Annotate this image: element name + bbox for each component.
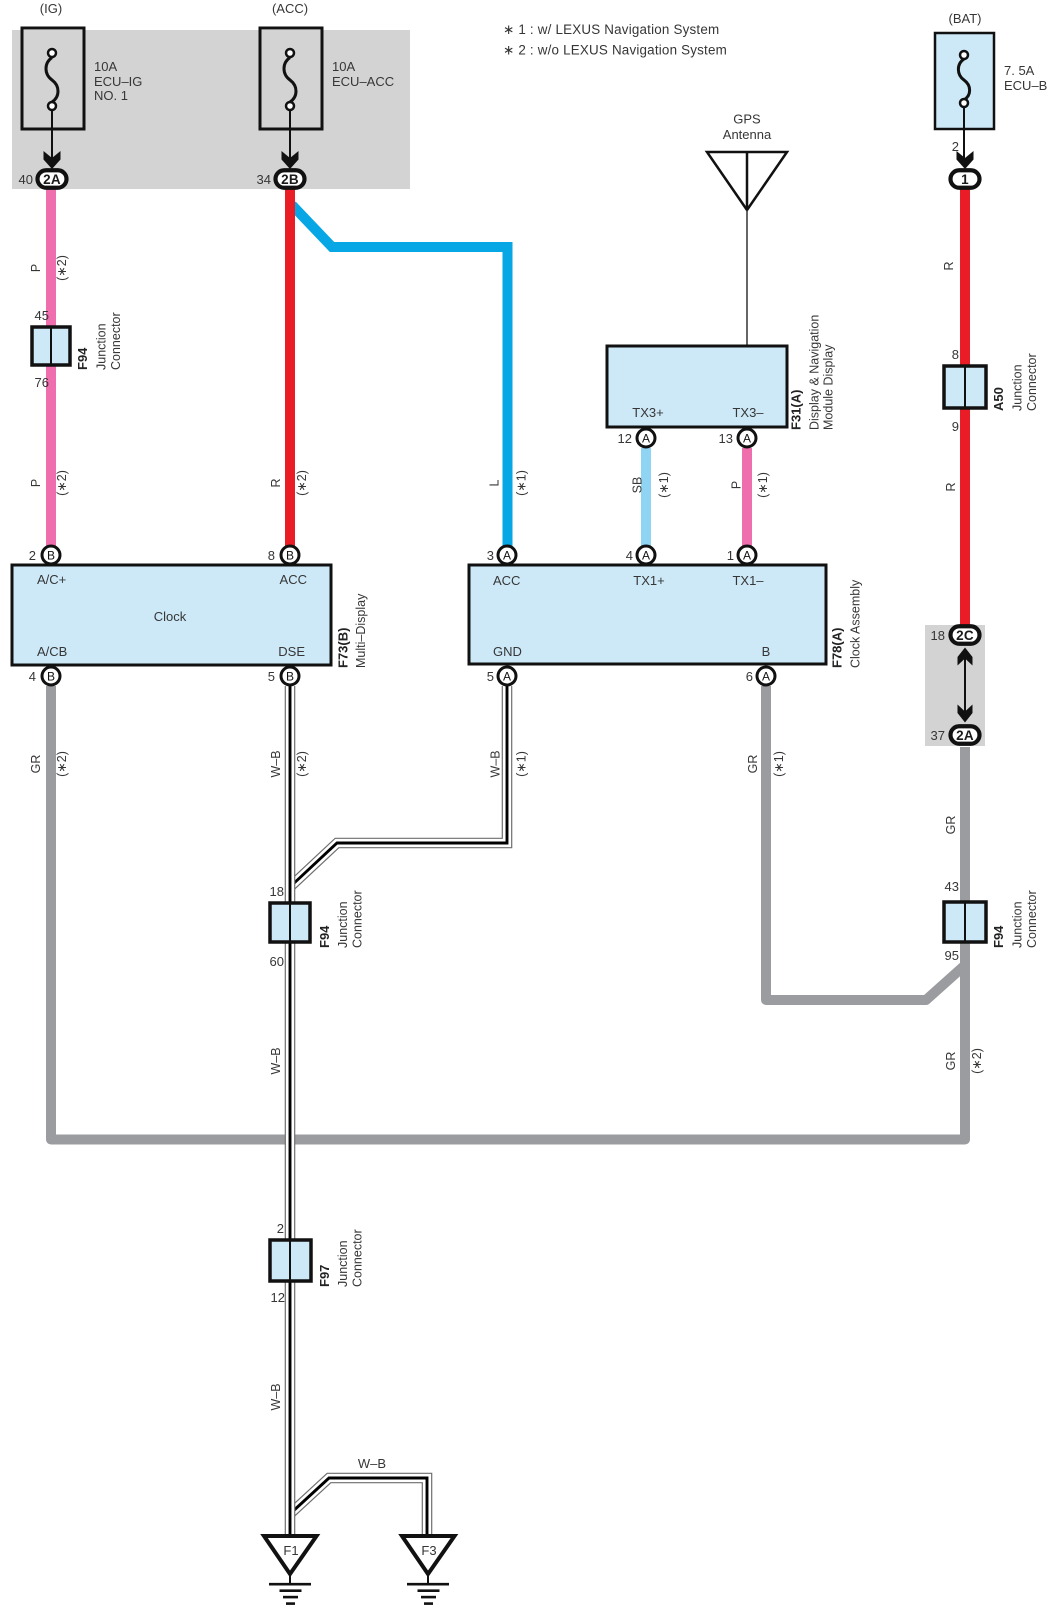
connector oval 2B — [276, 170, 305, 188]
wire label GR (*2) right lower — [944, 1048, 984, 1074]
svg-text:10A: 10A — [332, 59, 355, 74]
svg-text:F31(A): F31(A) — [789, 390, 804, 430]
svg-text:R: R — [269, 478, 283, 487]
svg-text:F3: F3 — [421, 1543, 436, 1558]
svg-text:Connector: Connector — [351, 1229, 365, 1287]
svg-text:45: 45 — [35, 308, 49, 323]
svg-text:F94: F94 — [991, 925, 1006, 948]
pin 5 B — [281, 667, 299, 685]
svg-text:ECU–IG: ECU–IG — [94, 74, 142, 89]
svg-text:F94: F94 — [75, 347, 90, 370]
wire label P (*2) lower — [29, 470, 69, 496]
wire label P (*1) — [730, 472, 771, 498]
svg-text:2: 2 — [29, 548, 36, 563]
svg-text:TX3+: TX3+ — [632, 405, 663, 420]
svg-text:W–B: W–B — [489, 750, 503, 777]
wire W-B (*1) from GND joining DSE line — [291, 686, 507, 886]
svg-text:Connector: Connector — [1025, 353, 1039, 411]
svg-text:B: B — [286, 549, 294, 563]
wire label W-B (*2) — [269, 750, 309, 777]
power source background box — [12, 30, 410, 189]
double arrow between 2C and 2A — [958, 648, 973, 723]
svg-text:A: A — [743, 549, 751, 563]
connector oval 2C with 18 — [931, 626, 980, 644]
svg-text:(∗2): (∗2) — [55, 255, 69, 281]
svg-text:(∗2): (∗2) — [970, 1048, 984, 1074]
wire P (*2) from 2A to clock pin 2 — [46, 189, 56, 549]
svg-text:43: 43 — [945, 879, 959, 894]
svg-text:(∗2): (∗2) — [55, 751, 69, 777]
wire label L (*1) — [488, 470, 529, 496]
svg-text:18: 18 — [270, 884, 284, 899]
connector pass-through background box (2C/2A) — [925, 625, 985, 746]
svg-text:60: 60 — [270, 954, 284, 969]
ground F1 — [264, 1536, 317, 1604]
svg-text:F97: F97 — [317, 1265, 332, 1287]
svg-text:(∗1): (∗1) — [772, 751, 786, 777]
junction connector F94 (45/76) — [32, 308, 123, 390]
svg-text:F78(A): F78(A) — [830, 628, 845, 668]
svg-text:ECU–ACC: ECU–ACC — [332, 74, 394, 89]
svg-text:13: 13 — [719, 431, 733, 446]
svg-text:F1: F1 — [283, 1543, 298, 1558]
svg-text:(∗2): (∗2) — [295, 470, 309, 496]
svg-text:Antenna: Antenna — [723, 127, 772, 142]
svg-text:L: L — [488, 479, 502, 486]
svg-text:1: 1 — [961, 172, 969, 187]
junction connector F97 (2/12) — [270, 1221, 365, 1305]
svg-text:Junction: Junction — [336, 901, 350, 948]
svg-text:A50: A50 — [991, 387, 1006, 411]
svg-text:6: 6 — [746, 669, 753, 684]
svg-text:(BAT): (BAT) — [949, 11, 982, 26]
svg-text:TX1–: TX1– — [732, 573, 764, 588]
svg-text:(∗2): (∗2) — [295, 751, 309, 777]
wire GR (*2) left A/CB down, across, up to 2A right column — [51, 686, 965, 1140]
junction connector F94 (18/60) — [270, 884, 365, 969]
svg-text:40: 40 — [19, 172, 33, 187]
svg-text:Multi–Display: Multi–Display — [354, 593, 368, 668]
pin 1 A — [738, 546, 756, 564]
arrow to connector 1 — [963, 107, 965, 160]
wire label R (*2) — [269, 470, 309, 496]
svg-text:GR: GR — [944, 816, 958, 835]
pin 13 A — [738, 429, 756, 447]
svg-text:(∗2): (∗2) — [55, 470, 69, 496]
svg-text:(IG): (IG) — [40, 1, 62, 16]
svg-text:P: P — [29, 264, 43, 272]
svg-text:GR: GR — [746, 755, 760, 774]
svg-text:P: P — [29, 479, 43, 487]
wire R battery column — [960, 189, 970, 626]
svg-text:37: 37 — [931, 728, 945, 743]
junction connector A50 (8/9) — [944, 347, 1039, 434]
svg-text:A/CB: A/CB — [37, 644, 67, 659]
connector oval 2A right with 37 — [931, 726, 980, 744]
pin 4 B — [42, 667, 60, 685]
svg-text:Junction: Junction — [1011, 364, 1025, 411]
svg-text:A: A — [743, 432, 751, 446]
svg-text:7. 5A: 7. 5A — [1004, 63, 1035, 78]
svg-text:A: A — [503, 549, 511, 563]
svg-text:34: 34 — [257, 172, 271, 187]
clock box F73(B) — [12, 565, 368, 668]
svg-text:(ACC): (ACC) — [272, 1, 308, 16]
wire label W-B (*1) — [489, 750, 529, 777]
pin 5 A — [498, 667, 516, 685]
svg-text:∗ 2 : w/o LEXUS Navigation Sys: ∗ 2 : w/o LEXUS Navigation System — [503, 43, 727, 58]
svg-text:R: R — [942, 261, 956, 270]
wire label GR (*1) — [746, 751, 786, 777]
svg-text:F73(B): F73(B) — [336, 628, 351, 668]
svg-text:5: 5 — [268, 669, 275, 684]
pin 6 A — [757, 667, 775, 685]
svg-text:2C: 2C — [956, 628, 974, 643]
svg-text:95: 95 — [945, 948, 959, 963]
svg-text:B: B — [762, 644, 771, 659]
pin 4 A — [637, 546, 655, 564]
svg-text:Junction: Junction — [336, 1240, 350, 1287]
svg-text:(∗1): (∗1) — [756, 472, 770, 498]
svg-text:10A: 10A — [94, 59, 117, 74]
svg-text:GND: GND — [493, 644, 522, 659]
svg-text:9: 9 — [952, 419, 959, 434]
svg-text:W–B: W–B — [269, 750, 283, 777]
fuse ECU-IG NO.1 — [22, 1, 142, 129]
wire SB (*1) TX3+ to TX1+ — [641, 448, 651, 549]
svg-text:2B: 2B — [281, 172, 299, 187]
svg-text:Connector: Connector — [109, 312, 123, 370]
wire W-B branch to ground F3 — [291, 1478, 427, 1537]
svg-text:NO. 1: NO. 1 — [94, 88, 128, 103]
svg-text:8: 8 — [952, 347, 959, 362]
svg-text:A/C+: A/C+ — [37, 572, 66, 587]
svg-text:B: B — [286, 670, 294, 684]
svg-text:ACC: ACC — [493, 573, 520, 588]
pin 12 A — [637, 429, 655, 447]
fuse ECU-B — [935, 11, 1047, 129]
display module F31(A) — [607, 315, 836, 430]
svg-text:SB: SB — [631, 477, 645, 494]
svg-text:Connector: Connector — [351, 890, 365, 948]
svg-text:B: B — [47, 670, 55, 684]
svg-text:Connector: Connector — [1025, 890, 1039, 948]
svg-text:A: A — [762, 670, 770, 684]
svg-text:8: 8 — [268, 548, 275, 563]
arrow to connector 2B — [289, 110, 291, 160]
svg-text:GPS: GPS — [733, 112, 761, 127]
connector oval 2A — [38, 170, 67, 188]
svg-text:76: 76 — [35, 375, 49, 390]
connector oval 1 — [951, 170, 980, 188]
svg-text:2A: 2A — [43, 172, 61, 187]
svg-text:ECU–B: ECU–B — [1004, 78, 1047, 93]
svg-text:18: 18 — [931, 628, 945, 643]
svg-text:1: 1 — [727, 548, 734, 563]
svg-text:A: A — [642, 549, 650, 563]
svg-text:5: 5 — [487, 669, 494, 684]
svg-text:W–B: W–B — [269, 1383, 283, 1410]
wire W-B main vertical DSE to ground F1 — [285, 686, 296, 1537]
arrow to connector 2A — [51, 110, 53, 160]
svg-text:F94: F94 — [317, 925, 332, 948]
svg-text:2: 2 — [277, 1221, 284, 1236]
pin 3 A — [498, 546, 516, 564]
wire R (*2) from 2B to clock ACC — [285, 189, 295, 549]
svg-text:(∗1): (∗1) — [515, 751, 529, 777]
svg-text:Junction: Junction — [1011, 901, 1025, 948]
svg-text:Junction: Junction — [95, 323, 109, 370]
svg-text:(∗1): (∗1) — [657, 472, 671, 498]
wire label GR (*2) left — [29, 751, 69, 777]
svg-text:GR: GR — [29, 755, 43, 774]
svg-text:B: B — [47, 549, 55, 563]
svg-text:R: R — [944, 482, 958, 491]
svg-text:W–B: W–B — [269, 1047, 283, 1074]
clock assembly F78(A) — [469, 565, 863, 668]
svg-text:(∗1): (∗1) — [515, 470, 529, 496]
svg-text:Module Display: Module Display — [822, 344, 836, 430]
wire L (*1) blue branch to clock assembly ACC — [292, 205, 508, 549]
svg-text:W–B: W–B — [358, 1456, 386, 1471]
svg-text:Clock: Clock — [154, 609, 187, 624]
svg-text:Clock Assembly: Clock Assembly — [849, 579, 863, 668]
ground F3 — [402, 1536, 455, 1604]
svg-text:TX3–: TX3– — [732, 405, 764, 420]
svg-text:TX1+: TX1+ — [633, 573, 664, 588]
svg-text:12: 12 — [618, 431, 632, 446]
pin 2 B — [42, 546, 60, 564]
svg-text:2: 2 — [952, 139, 959, 154]
wire P (*1) TX3- to TX1- — [742, 448, 752, 549]
svg-text:DSE: DSE — [278, 644, 305, 659]
wire GR (*1) from clock assembly B joining right column — [766, 686, 964, 1000]
pin 8 B — [281, 546, 299, 564]
svg-text:4: 4 — [626, 548, 633, 563]
svg-text:A: A — [642, 432, 650, 446]
GPS antenna — [707, 112, 787, 347]
junction connector F94 (43/95) — [944, 879, 1039, 963]
svg-text:12: 12 — [271, 1290, 285, 1305]
svg-text:4: 4 — [29, 669, 36, 684]
svg-text:2A: 2A — [956, 728, 974, 743]
fuse ECU-ACC — [260, 1, 394, 129]
svg-text:GR: GR — [944, 1052, 958, 1071]
svg-text:P: P — [730, 481, 744, 489]
svg-text:A: A — [503, 670, 511, 684]
svg-text:ACC: ACC — [280, 572, 307, 587]
wire label SB (*1) — [631, 472, 672, 498]
svg-text:∗ 1 : w/ LEXUS Navigation Syst: ∗ 1 : w/ LEXUS Navigation System — [503, 22, 719, 37]
svg-text:Display & Navigation: Display & Navigation — [808, 315, 822, 430]
wire label P (*2) upper — [29, 255, 69, 281]
svg-text:3: 3 — [487, 548, 494, 563]
